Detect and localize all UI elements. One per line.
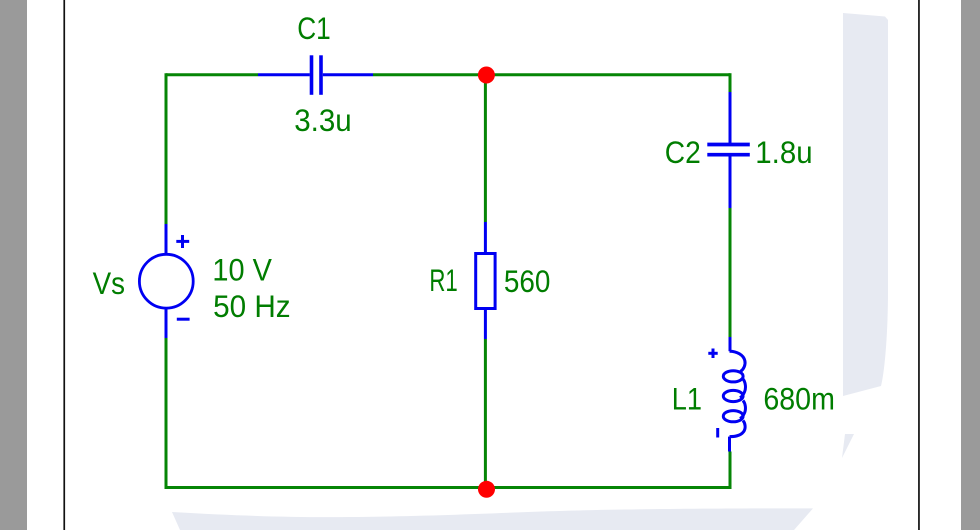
svg-text:50 Hz: 50 Hz bbox=[213, 288, 291, 324]
svg-text:Vs: Vs bbox=[93, 265, 125, 301]
svg-text:C1: C1 bbox=[297, 10, 331, 46]
svg-text:C2: C2 bbox=[665, 134, 701, 170]
svg-text:3.3u: 3.3u bbox=[294, 102, 352, 138]
svg-text:L1: L1 bbox=[672, 380, 702, 416]
svg-text:R1: R1 bbox=[429, 262, 457, 298]
svg-text:680m: 680m bbox=[763, 380, 835, 416]
svg-text:1.8u: 1.8u bbox=[755, 134, 812, 170]
svg-text:10 V: 10 V bbox=[212, 251, 272, 287]
svg-text:560: 560 bbox=[504, 263, 551, 299]
